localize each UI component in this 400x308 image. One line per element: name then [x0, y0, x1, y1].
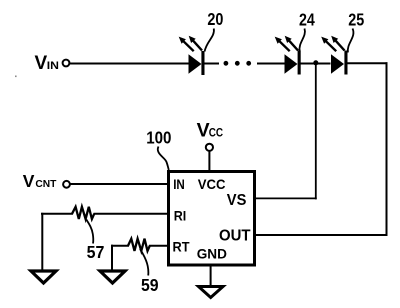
svg-text:59: 59 [141, 275, 159, 295]
pin VCC label [198, 177, 226, 192]
label 24 [299, 10, 315, 30]
label 59 [141, 275, 159, 295]
leader 57 [86, 220, 93, 244]
pin OUT label [219, 228, 251, 245]
label VIN [35, 53, 60, 74]
label VCNT [23, 171, 57, 191]
ground G2 [100, 271, 125, 283]
resistor R59 [128, 239, 150, 251]
label 57 [87, 242, 105, 262]
svg-text:V: V [23, 171, 35, 191]
svg-text:100: 100 [146, 128, 171, 148]
wire R59 to pin RT [149, 245, 170, 247]
speck artifact [15, 76, 17, 78]
resistor R57 [72, 207, 94, 219]
svg-text:RT: RT [173, 239, 190, 255]
junction node VS top [313, 60, 318, 65]
node VCC terminal [206, 144, 213, 151]
wire OUT horizontal [255, 234, 388, 236]
svg-text:CC: CC [209, 126, 224, 140]
pin RT label [173, 239, 190, 255]
svg-text:57: 57 [87, 242, 105, 262]
leader 59 [140, 249, 148, 276]
label 100 [146, 128, 171, 148]
ellipsis dots [224, 61, 252, 66]
label 25 [348, 10, 364, 30]
wire right vertical to OUT [386, 62, 388, 236]
pin IN label [173, 177, 185, 192]
node VCNT terminal [63, 181, 70, 188]
svg-text:RI: RI [174, 207, 187, 223]
leader 25 [348, 29, 354, 53]
wire RT left segment [111, 245, 129, 247]
wire D24 cathode through node VS to LED 25 anode [300, 63, 331, 65]
pin RI label [174, 207, 187, 223]
wire RT down to ground [111, 245, 113, 272]
svg-text:GND: GND [197, 245, 227, 261]
wire VCC to IC [208, 151, 210, 172]
wire after D20 [205, 63, 220, 65]
wire VS horizontal [255, 197, 317, 199]
pin GND label [197, 245, 227, 261]
wire GND pin down [210, 265, 212, 287]
svg-text:IN: IN [47, 60, 59, 72]
label VCC [197, 119, 224, 141]
wire R57 to pin RI [94, 213, 171, 215]
LED D20 [179, 36, 205, 75]
wire RI left segment [41, 213, 73, 215]
svg-text:CNT: CNT [35, 178, 57, 190]
ground G3 (IC GND) [199, 287, 224, 298]
leader 20 [205, 29, 214, 52]
label 20 [207, 9, 223, 29]
svg-text:OUT: OUT [219, 228, 251, 245]
svg-text:20: 20 [207, 9, 223, 29]
pin VS label [227, 192, 247, 209]
node VIN terminal [63, 60, 70, 67]
svg-text:24: 24 [299, 10, 315, 30]
svg-text:IN: IN [173, 177, 185, 192]
wire VS vertical [315, 64, 317, 200]
op-amp U100 IC body [169, 172, 255, 266]
wire VIN rail to LED 20 anode [70, 63, 189, 65]
leader 24 [299, 29, 304, 52]
svg-text:V: V [35, 53, 48, 74]
wire VCNT to pin IN [70, 183, 170, 185]
svg-text:V: V [197, 119, 210, 141]
wire RI down to ground [41, 213, 43, 272]
svg-text:VCC: VCC [198, 177, 226, 192]
svg-text:VS: VS [227, 192, 247, 209]
leader 100 [158, 147, 169, 171]
LED D25 [321, 36, 347, 75]
wire dots to LED 24 anode [257, 63, 285, 65]
svg-text:25: 25 [348, 10, 364, 30]
wire D25 cathode to right corner [346, 62, 388, 64]
LED D24 [275, 36, 301, 75]
ground G1 [31, 271, 56, 283]
